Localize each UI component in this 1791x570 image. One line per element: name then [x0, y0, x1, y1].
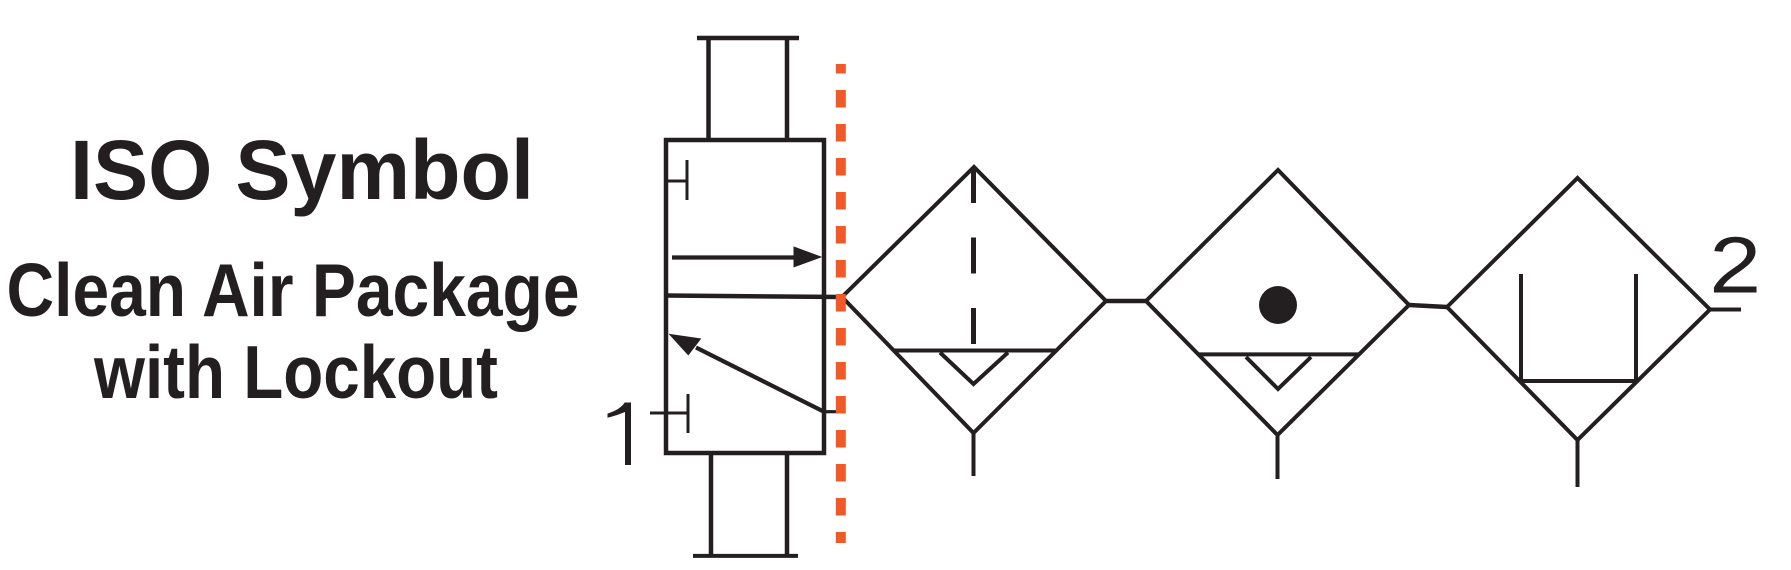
svg-text:ISO Symbol: ISO Symbol — [70, 123, 534, 217]
svg-text:Clean Air Package: Clean Air Package — [7, 248, 580, 332]
svg-text:2: 2 — [1709, 221, 1761, 310]
svg-text:with Lockout: with Lockout — [93, 330, 498, 414]
